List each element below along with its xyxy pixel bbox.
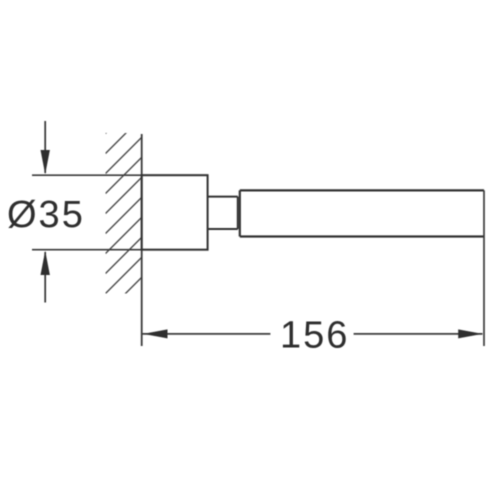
dia35 arrowhead top xyxy=(41,150,50,174)
extension line bottom (dia 35) xyxy=(32,249,208,251)
svg-text:Ø35: Ø35 xyxy=(7,194,85,236)
flange body outline xyxy=(142,175,208,250)
arrowhead right (156) xyxy=(458,329,482,338)
wall face line xyxy=(141,134,143,346)
cylinder arm xyxy=(240,190,484,236)
dia35 arrow line top xyxy=(44,121,46,173)
neck between flange and cylinder xyxy=(208,197,238,229)
dia35 arrow line bottom xyxy=(44,252,46,303)
right extension line xyxy=(483,190,485,346)
arrowhead left (156) xyxy=(143,329,167,338)
extension line top (dia 35) xyxy=(32,174,208,176)
dimension line 156 right segment xyxy=(354,333,483,335)
wall hatching xyxy=(106,97,143,334)
dia35 arrowhead bottom xyxy=(41,251,50,275)
dimension line 156 left segment xyxy=(142,333,270,335)
svg-text:156: 156 xyxy=(280,315,349,357)
